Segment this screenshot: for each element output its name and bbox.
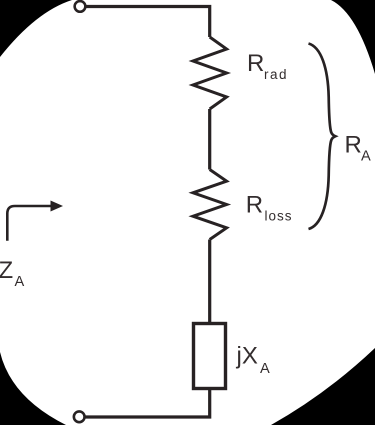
svg-text:R: R xyxy=(345,131,362,158)
svg-text:A: A xyxy=(15,274,25,290)
svg-text:rad: rad xyxy=(264,67,288,82)
svg-text:loss: loss xyxy=(265,209,293,224)
svg-text:jX: jX xyxy=(236,342,258,369)
svg-text:A: A xyxy=(361,148,371,164)
svg-text:R: R xyxy=(247,50,264,77)
svg-text:R: R xyxy=(246,192,263,219)
svg-text:A: A xyxy=(260,361,270,377)
svg-text:Z: Z xyxy=(0,257,13,284)
